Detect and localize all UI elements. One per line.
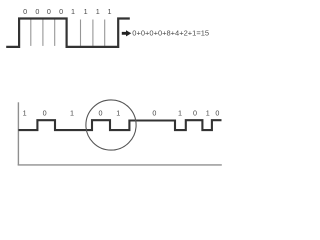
highlight circle around bits 0 1 xyxy=(86,100,136,150)
svg-text:0: 0 xyxy=(152,108,156,117)
bottom axis vertical line xyxy=(17,102,19,165)
top waveform trace xyxy=(6,19,130,47)
svg-text:1: 1 xyxy=(23,108,27,117)
bottom waveform trace xyxy=(18,120,221,130)
svg-text:0: 0 xyxy=(47,7,51,16)
top waveform bit separator 1 xyxy=(30,20,32,46)
svg-text:1: 1 xyxy=(206,108,210,117)
svg-text:0: 0 xyxy=(215,108,219,117)
svg-text:0: 0 xyxy=(59,7,63,16)
svg-text:1: 1 xyxy=(96,7,100,16)
svg-text:1: 1 xyxy=(178,108,182,117)
svg-text:1: 1 xyxy=(70,108,74,117)
svg-text:0: 0 xyxy=(99,108,103,117)
top waveform bit separator 5 xyxy=(92,20,94,46)
bottom axis horizontal line xyxy=(18,164,222,166)
svg-text:0: 0 xyxy=(43,108,47,117)
svg-text:0: 0 xyxy=(193,108,197,117)
top waveform bit separator 4 xyxy=(80,20,82,46)
svg-text:1: 1 xyxy=(71,7,75,16)
top waveform bit separator 3 xyxy=(54,20,56,46)
arrow pointing to sum xyxy=(122,30,132,36)
svg-text:1: 1 xyxy=(108,7,112,16)
svg-text:0: 0 xyxy=(35,7,39,16)
svg-text:1: 1 xyxy=(116,108,120,117)
top waveform bit separator 6 xyxy=(104,20,106,46)
svg-text:1: 1 xyxy=(84,7,88,16)
top waveform bit separator 2 xyxy=(42,20,44,46)
svg-text:0+0+0+0+8+4+2+1=15: 0+0+0+0+8+4+2+1=15 xyxy=(132,29,209,38)
svg-text:0: 0 xyxy=(23,7,27,16)
